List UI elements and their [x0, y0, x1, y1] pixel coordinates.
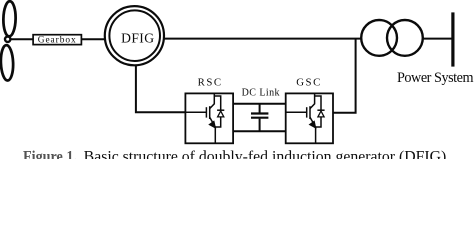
wire transformer to bus — [423, 38, 452, 40]
wire gearbox to DFIG — [81, 38, 104, 40]
DC link top rail — [233, 103, 286, 105]
wire GSC riser — [333, 39, 356, 113]
svg-text:GSC: GSC — [296, 77, 322, 89]
wind turbine blade bottom — [0, 45, 14, 81]
stator wire DFIG to transformer — [164, 38, 361, 40]
wire hub to gearbox — [10, 38, 33, 40]
svg-text:Figure 1.Basic structure of do: Figure 1.Basic structure of doubly-fed i… — [23, 149, 450, 159]
IGBT valve of RSC — [185, 93, 224, 143]
wind turbine blade top — [3, 1, 16, 36]
rotor wire DFIG down to RSC — [136, 65, 186, 112]
svg-text:Power System: Power System — [397, 70, 474, 86]
DC link capacitor plate top — [251, 112, 268, 114]
power system bus bar — [451, 12, 454, 66]
DC link capacitor plate bottom — [251, 117, 268, 119]
generator DFIG inner circle — [109, 10, 160, 61]
DC link capacitor lead top — [259, 104, 261, 113]
svg-text:DC Link: DC Link — [242, 87, 280, 98]
turbine hub — [5, 37, 10, 42]
converter GSC box — [286, 93, 333, 143]
DC link bottom rail — [233, 130, 286, 132]
converter RSC box — [185, 93, 233, 143]
svg-text:DFIG: DFIG — [121, 30, 154, 45]
transformer primary circle — [361, 20, 397, 56]
DC link capacitor lead bottom — [259, 119, 261, 132]
svg-text:RSC: RSC — [198, 77, 223, 89]
generator DFIG outer circle — [105, 6, 164, 65]
gearbox box — [33, 35, 81, 45]
IGBT valve of GSC — [286, 93, 325, 143]
transformer secondary circle — [387, 20, 423, 56]
svg-text:Gearbox: Gearbox — [38, 36, 77, 46]
